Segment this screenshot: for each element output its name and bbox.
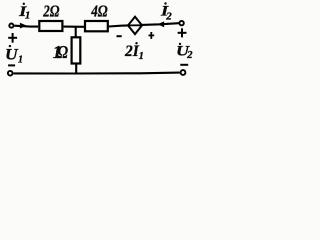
svg-text:1: 1 [25, 10, 31, 22]
svg-text:2Ω: 2Ω [43, 2, 61, 21]
svg-text:Ω: Ω [57, 42, 68, 62]
svg-text:4Ω: 4Ω [90, 2, 108, 21]
svg-text:2: 2 [165, 11, 172, 23]
svg-text:2: 2 [186, 50, 193, 61]
svg-text:1: 1 [139, 51, 144, 62]
svg-text:2I: 2I [124, 43, 140, 60]
svg-text:1: 1 [18, 54, 23, 65]
